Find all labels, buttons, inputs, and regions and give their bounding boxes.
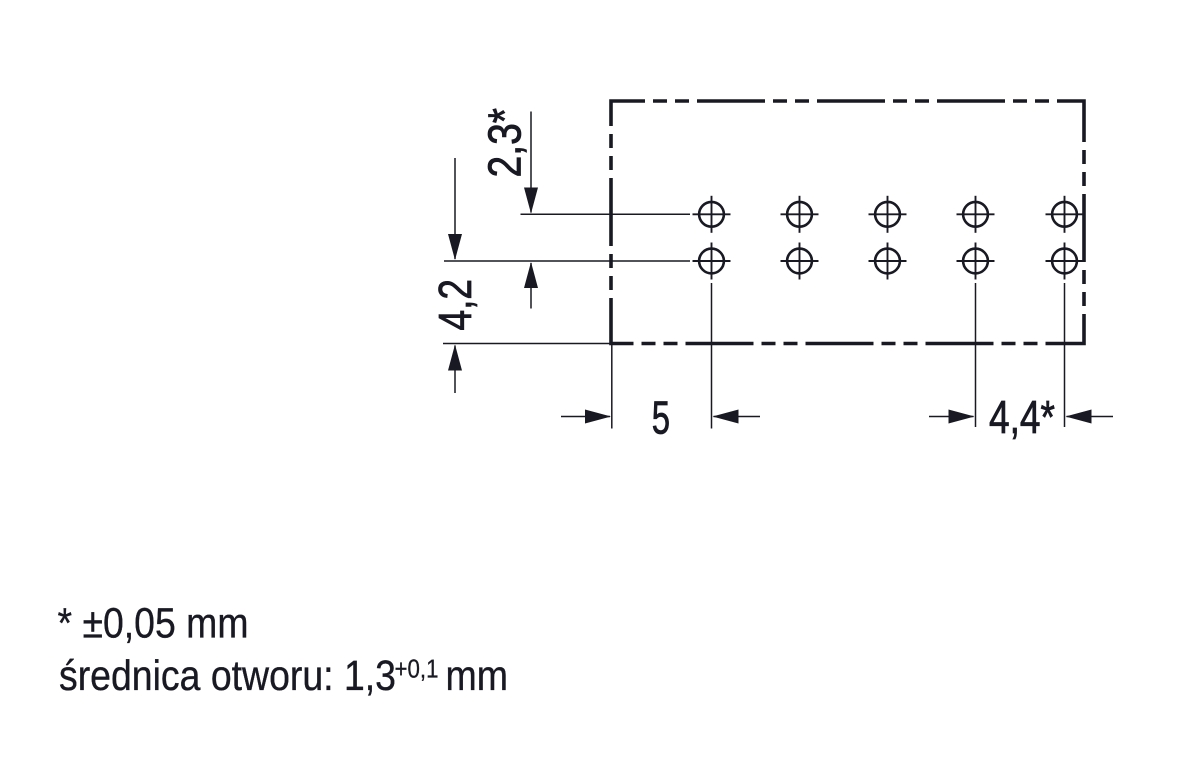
- connector body outline (phantom dash-dot-dot rectangle): [611, 101, 1084, 344]
- hole row2 col1: [693, 243, 731, 280]
- svg-text:5: 5: [652, 392, 670, 444]
- svg-text:mm: mm: [446, 653, 509, 700]
- dimension 2,3* lower arrow: [530, 263, 532, 309]
- hole row2 col4: [957, 243, 995, 280]
- hole row1 col5: [1046, 196, 1084, 233]
- extension line hole column 4 down: [975, 283, 977, 427]
- dimension 4,4* left arrow: [929, 416, 974, 418]
- svg-text:średnica otworu: 1,3: średnica otworu: 1,3: [59, 653, 396, 700]
- extension line bottom edge: [443, 343, 613, 345]
- extension line bottom hole row: [444, 260, 690, 262]
- extension line top hole row: [521, 213, 691, 215]
- hole row2 col5: [1046, 243, 1084, 280]
- hole row1 col2: [781, 196, 819, 233]
- dimension 2,3* upper arrow: [530, 112, 532, 213]
- dimension 4,4* right arrow: [1067, 416, 1114, 418]
- hole row2 col3: [869, 243, 907, 280]
- dimension 5 right arrow: [714, 416, 761, 418]
- extension line left edge down: [611, 344, 613, 429]
- svg-text:2,3*: 2,3*: [479, 108, 531, 178]
- svg-text:+0,1: +0,1: [395, 654, 439, 684]
- hole row2 col2: [781, 243, 819, 280]
- svg-text:4,4*: 4,4*: [989, 391, 1055, 443]
- dimension 4,2 lower arrow: [454, 346, 456, 394]
- hole row1 col3: [869, 196, 907, 233]
- dimension 4,2 upper arrow: [454, 158, 456, 259]
- hole row1 col1: [693, 196, 731, 233]
- extension line hole column 5 down: [1064, 283, 1066, 427]
- dimension 5 left arrow: [561, 416, 610, 418]
- extension line hole column 1 down: [711, 283, 713, 429]
- svg-text:4,2: 4,2: [429, 279, 481, 331]
- svg-text:* ±0,05 mm: * ±0,05 mm: [58, 601, 249, 648]
- hole row1 col4: [957, 196, 995, 233]
